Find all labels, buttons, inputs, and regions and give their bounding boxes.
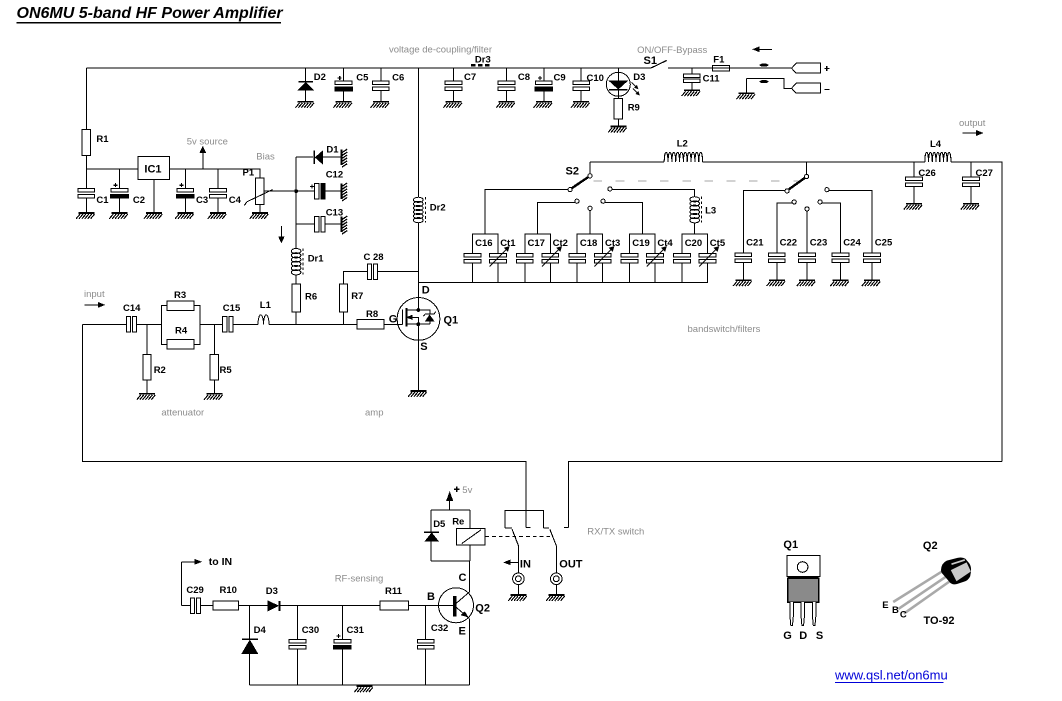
svg-text:C23: C23 [810, 237, 827, 248]
wire R2 to ground [146, 380, 148, 393]
svg-text:C19: C19 [632, 238, 649, 249]
svg-text:C17: C17 [528, 238, 545, 249]
wire C26 stem [913, 162, 915, 203]
svg-text:R4: R4 [175, 326, 188, 337]
wire C13 leads [296, 223, 340, 225]
wire C9 stem [543, 68, 545, 101]
diode D5 [424, 532, 439, 541]
ground below R2 [137, 393, 156, 400]
potentiometer P1 [244, 178, 272, 206]
svg-text:attenuator: attenuator [161, 408, 204, 419]
capacitor C31 (polar) [334, 634, 352, 649]
capacitor C22 [768, 253, 785, 263]
svg-text:L2: L2 [677, 139, 688, 150]
fuse F1 [712, 65, 729, 71]
svg-text:C26: C26 [918, 168, 935, 179]
chassis bar at C12 [340, 183, 347, 201]
svg-text:input: input [84, 289, 105, 300]
wire C18 to bottom bus [576, 263, 578, 282]
svg-text:5v: 5v [462, 485, 472, 496]
ground below P1 [250, 212, 268, 219]
capacitor C26 [906, 177, 923, 187]
svg-text:D2: D2 [314, 72, 326, 83]
wire C17/Ct2 tank bracket [525, 234, 551, 253]
svg-text:C4: C4 [229, 195, 242, 206]
node +5v arrow [447, 492, 453, 510]
switch S1 [651, 60, 667, 68]
capacitor C11 [683, 74, 700, 83]
svg-text:C1: C1 [96, 195, 109, 206]
svg-text:TO-92: TO-92 [924, 615, 955, 627]
svg-text:L1: L1 [260, 300, 272, 311]
svg-text:R7: R7 [351, 291, 363, 302]
connector IN jack [513, 573, 525, 585]
ground below C27 [961, 203, 980, 210]
wire relay bottom bar [431, 560, 470, 562]
svg-text:C16: C16 [475, 238, 492, 249]
capacitor C21 [735, 253, 752, 263]
wire C31 drop [341, 606, 343, 685]
svg-text:R6: R6 [305, 292, 317, 303]
wire S2b contact3 to C23 [806, 211, 808, 253]
chassis bar at C13 [340, 216, 347, 234]
label link www.qsl.net/on6mu [834, 668, 948, 683]
svg-text:Q1: Q1 [783, 539, 798, 551]
wire D4 to bottom bus [249, 654, 251, 685]
wire - lead [747, 78, 792, 92]
svg-text:G: G [389, 314, 398, 326]
wire input line [83, 323, 127, 325]
ground below C10 [571, 101, 590, 108]
wire D4 drop [249, 606, 251, 639]
Q1 TO-220 package [787, 556, 820, 626]
wire C11 stem [691, 68, 693, 89]
ground below C4 [208, 212, 227, 219]
ground below C5 [333, 101, 352, 108]
capacitor Ct1 (trimmer) [490, 253, 507, 263]
svg-text:C21: C21 [746, 237, 764, 248]
wire drain to filter bottom bus [418, 281, 708, 283]
wire R6 to input line [295, 312, 297, 324]
wire C19/Ct4 tank bracket [630, 234, 656, 253]
svg-text:C12: C12 [326, 169, 343, 180]
wire C16/Ct1 tank bracket [472, 234, 498, 253]
inductor Dr1 [291, 248, 303, 275]
svg-text:R9: R9 [628, 103, 640, 114]
svg-text:C3: C3 [196, 195, 208, 206]
wire S2a contact5 to L3 [612, 190, 695, 197]
node bias-direction arrow [279, 226, 285, 243]
inductor L3 [690, 197, 702, 223]
svg-text:amp: amp [365, 408, 383, 419]
ground below IN jack [508, 594, 527, 601]
svg-text:Ct1: Ct1 [500, 238, 516, 249]
svg-text:C7: C7 [464, 72, 476, 83]
svg-text:D1: D1 [326, 145, 339, 156]
wire C3 stem [184, 169, 186, 212]
capacitor C7 [445, 81, 462, 91]
relay contact lever IN [512, 529, 518, 573]
svg-text:IC1: IC1 [144, 164, 161, 176]
diode D4 [242, 639, 258, 654]
svg-text:to IN: to IN [209, 556, 232, 568]
wire top supply bus (right of S1 to + terminal) [668, 67, 791, 69]
ground below C6 [371, 101, 390, 108]
svg-text:D3: D3 [266, 586, 278, 597]
relay contact common bar [505, 510, 549, 528]
svg-text:C6: C6 [392, 73, 404, 84]
inductor Dr2 [414, 197, 426, 223]
capacitor C29 [190, 598, 200, 614]
wire Ct3 to bottom bus [602, 263, 604, 282]
ground at - lead [737, 92, 756, 99]
capacitor Ct3 (trimmer) [594, 253, 611, 263]
wire Q1 source to ground [417, 324, 419, 390]
attenuator network R3/R4 frame [161, 306, 200, 345]
ground below C21 [733, 279, 752, 286]
capacitor Ct5 (trimmer) [699, 253, 716, 263]
svg-text:C2: C2 [133, 195, 145, 206]
resistor R7 [339, 284, 347, 312]
svg-text:R1: R1 [96, 134, 109, 145]
transistor Q2 [439, 588, 474, 623]
wire gate line [269, 323, 402, 325]
svg-text:www.qsl.net/on6mu: www.qsl.net/on6mu [834, 668, 948, 683]
svg-text:R10: R10 [220, 585, 237, 596]
capacitor C24 [832, 253, 849, 263]
wire C18/Ct3 tank bracket [577, 234, 603, 253]
capacitor C17 [516, 253, 533, 263]
capacitor C19 [621, 253, 638, 263]
switch S2 section B [785, 162, 829, 211]
ferrite bead on - lead [760, 80, 769, 83]
svg-text:D: D [799, 630, 807, 642]
wire P1 to ground [259, 205, 261, 212]
svg-text:B: B [892, 605, 899, 616]
wire D5 branch [430, 510, 432, 561]
wire relay to Q2 collector [469, 561, 471, 592]
svg-text:E: E [882, 600, 888, 611]
capacitor C18 [569, 253, 586, 263]
ground below R9 [608, 126, 627, 133]
wire S2a contact3 to C18 tank [589, 210, 591, 234]
svg-text:C25: C25 [875, 237, 893, 248]
svg-text:C10: C10 [587, 73, 604, 84]
node input arrow [84, 302, 104, 307]
svg-text:C9: C9 [554, 73, 566, 84]
wire C17 to bottom bus [524, 263, 526, 282]
capacitor C1 [78, 188, 95, 198]
wire filter top line (middle segment) [703, 161, 925, 163]
wire R5 to ground [213, 380, 215, 393]
capacitor C6 [372, 81, 389, 91]
svg-text:D5: D5 [433, 519, 446, 530]
wire S2b contact5 to C25 [829, 190, 872, 253]
wire R10 to D3 [239, 605, 268, 607]
node output arrow [963, 130, 983, 135]
svg-text:Q2: Q2 [475, 603, 490, 615]
svg-text:Ct5: Ct5 [710, 238, 726, 249]
svg-text:S: S [420, 341, 427, 353]
svg-text:RF-sensing: RF-sensing [335, 573, 384, 584]
resistor R5 [210, 354, 218, 380]
ground below C24 [830, 279, 849, 286]
wire R5 drop [213, 324, 215, 354]
capacitor C20 [674, 253, 691, 263]
ground below D2 [296, 101, 315, 108]
wire left drop from bus to R1 [85, 68, 87, 130]
svg-text:Dr3: Dr3 [475, 55, 491, 66]
ground below IC1 [144, 212, 163, 219]
capacitor Ct4 (trimmer) [647, 253, 664, 263]
wire Ct4 to bottom bus [654, 263, 656, 282]
resistor R8 [357, 320, 384, 330]
svg-text:D: D [422, 285, 430, 297]
node 5v source arrow [200, 146, 206, 169]
wire Dr2 to Q1 drain [417, 222, 419, 310]
wire Ct2 to bottom bus [549, 263, 551, 282]
wire C15 to L1 [233, 323, 258, 325]
wire to C29 [182, 605, 191, 607]
svg-text:output: output [959, 118, 986, 129]
wire bias chain vertical [295, 157, 297, 248]
switch S2 section A [568, 162, 612, 210]
svg-text:B: B [427, 591, 435, 603]
inductor L2 [664, 152, 702, 162]
capacitor C8 [498, 81, 515, 91]
wire C21 to ground [742, 263, 744, 280]
svg-text:C: C [459, 572, 467, 584]
capacitor C14 [126, 317, 136, 333]
ground below C23 [797, 279, 816, 286]
svg-text:C5: C5 [356, 73, 369, 84]
wire C1 stem [85, 169, 87, 212]
wire R1 to bias rail [85, 156, 87, 169]
svg-text:Ct4: Ct4 [657, 238, 673, 249]
svg-text:G: G [783, 630, 792, 642]
svg-text:Dr2: Dr2 [430, 203, 446, 214]
wire TX contact foot [526, 527, 531, 529]
label title ON6MU 5-band HF Power Amplifier [17, 5, 284, 23]
resistor R4 [167, 340, 194, 350]
svg-text:OUT: OUT [559, 558, 583, 570]
svg-text:voltage de-coupling/filter: voltage de-coupling/filter [389, 44, 492, 55]
wire S2a contact2 to C17 tank [538, 202, 575, 234]
wire C2 stem [119, 169, 121, 212]
svg-text:C20: C20 [685, 238, 702, 249]
svg-text:R11: R11 [385, 586, 403, 597]
wire Ct5 to bottom bus [707, 263, 709, 282]
capacitor C13 [315, 216, 325, 232]
wire R7 to C28 [344, 272, 368, 284]
wire Q2 emitter to bottom bus [469, 619, 471, 685]
resistor R1 [82, 130, 90, 156]
wire R2 drop [146, 324, 148, 354]
transistor Q1 (MOSFET) [397, 298, 440, 341]
wire C12 leads [296, 190, 340, 192]
wire C16 to bottom bus [471, 263, 473, 282]
wire Dr1 to R6 [295, 275, 297, 285]
ground below C25 [862, 279, 881, 286]
Q2 TO-92 package [893, 558, 971, 614]
wire relay top bar [431, 509, 470, 511]
wire attenuator output [200, 323, 223, 325]
wire D2 stem [305, 68, 307, 101]
ground below C8 [496, 101, 515, 108]
svg-text:E: E [459, 626, 466, 638]
diode D1 [314, 151, 340, 165]
wire drain line from bus [417, 68, 419, 197]
svg-text:L4: L4 [930, 139, 942, 150]
capacitor C32 [417, 639, 434, 649]
svg-text:L3: L3 [705, 205, 716, 216]
capacitor C15 [223, 317, 233, 333]
chassis bar at D1 [340, 149, 347, 167]
ground at bottom bus [354, 685, 373, 692]
svg-text:C27: C27 [976, 168, 993, 179]
node battery arrow [753, 47, 772, 52]
wire 5v rail [86, 169, 260, 178]
capacitor C30 [289, 639, 306, 649]
wire filter top line (left segment) [590, 161, 664, 163]
svg-text:Ct2: Ct2 [553, 238, 568, 249]
svg-text:D4: D4 [254, 625, 267, 636]
svg-text:C18: C18 [580, 238, 597, 249]
ground below Q1 source [408, 390, 427, 397]
capacitor C9 (polar) [535, 76, 553, 91]
svg-text:Dr1: Dr1 [308, 253, 325, 264]
capacitor C27 [963, 177, 980, 187]
wire C8 stem [506, 68, 508, 101]
wire P1 wiper output [265, 190, 297, 192]
wire D1 anode lead [296, 156, 313, 158]
wire R11 to Q2 base [408, 605, 438, 607]
wire C23 to ground [806, 263, 808, 280]
svg-text:Q1: Q1 [444, 315, 459, 327]
wire C32 drop [425, 606, 427, 685]
wire C20 to bottom bus [681, 263, 683, 282]
svg-text:D3: D3 [633, 72, 645, 83]
wire S2b contact4 to C24 [822, 203, 840, 253]
svg-text:R3: R3 [174, 290, 186, 301]
capacitor Ct2 (trimmer) [542, 253, 559, 263]
wire S2b contact1 to C21 [743, 190, 785, 253]
svg-text:C 28: C 28 [364, 252, 384, 263]
ground below C1 [76, 212, 95, 219]
wire S2b contact2 to C22 [777, 203, 792, 253]
wire C22 to ground [776, 263, 778, 280]
inductor L4 [925, 152, 951, 162]
wire C4 stem [217, 169, 219, 212]
ground below C9 [534, 101, 553, 108]
diode D3 (RF sense) [268, 601, 279, 611]
svg-text:R8: R8 [366, 309, 378, 320]
ground below C11 [682, 89, 701, 96]
wire D3 to R11 [280, 605, 380, 607]
node junction wiper/C12 [294, 189, 298, 193]
resistor R11 [380, 601, 408, 610]
linkage dashed line S2 [594, 180, 804, 182]
connector + terminal [792, 63, 830, 73]
svg-text:C29: C29 [186, 585, 203, 596]
wire C24 to ground [840, 263, 842, 280]
capacitor C12 (polar) [310, 183, 325, 199]
wire IC1 ground pin [153, 179, 155, 212]
ground below R5 [204, 393, 223, 400]
wire C5 stem [343, 68, 345, 101]
wire input line to relay (left drop) [83, 324, 526, 527]
svg-text:Ct3: Ct3 [605, 238, 620, 249]
relay coil Re [456, 529, 485, 545]
node to-IN arrow [182, 559, 202, 605]
wire C29 to R10 [201, 605, 213, 607]
svg-text:C11: C11 [703, 73, 721, 84]
LED D3 [606, 72, 639, 98]
svg-text:C32: C32 [431, 623, 448, 634]
svg-text:C14: C14 [123, 303, 141, 314]
svg-text:Q2: Q2 [923, 540, 938, 552]
ground below C7 [443, 101, 462, 108]
svg-text:RX/TX switch: RX/TX switch [587, 526, 644, 537]
wire OUT jack to ground [555, 585, 557, 594]
node IN arrow [504, 560, 519, 565]
svg-text:C: C [900, 609, 907, 620]
wire C7 stem [453, 68, 455, 101]
capacitor C10 [573, 81, 590, 91]
wire IN jack to ground [517, 585, 519, 594]
wire bottom bus [250, 684, 470, 686]
ground below C26 [904, 203, 923, 210]
svg-text:ON6MU 5-band HF Power Amplifie: ON6MU 5-band HF Power Amplifier [17, 5, 284, 22]
wire C28 to drain [378, 271, 419, 273]
svg-text:C30: C30 [302, 625, 319, 636]
wire C19 to bottom bus [629, 263, 631, 282]
resistor R3 [167, 301, 194, 311]
wire relay coil lead [469, 510, 471, 561]
wire C30 drop [297, 606, 299, 685]
capacitor C3 (polar) [177, 183, 195, 198]
svg-text:F1: F1 [713, 55, 725, 66]
wire L3 to C20 tank [694, 223, 696, 235]
wire R9 to ground [617, 119, 619, 126]
wire C20/Ct5 tank bracket [682, 234, 708, 253]
wire C14 to attenuator [137, 323, 162, 325]
capacitor C28 [367, 264, 377, 280]
svg-text:P1: P1 [243, 168, 255, 179]
wire C10 stem [580, 68, 582, 101]
svg-text:C22: C22 [780, 237, 797, 248]
linkage dashed relay to contacts [485, 535, 551, 537]
wire C27 stem [970, 162, 972, 203]
svg-text:C8: C8 [518, 72, 530, 83]
svg-text:C15: C15 [223, 303, 241, 314]
svg-text:S2: S2 [566, 166, 579, 178]
resistor R6 [292, 284, 300, 312]
resistor R2 [143, 354, 151, 380]
capacitor C25 [864, 253, 881, 263]
wire Ct1 to bottom bus [497, 263, 499, 282]
svg-text:S: S [816, 630, 823, 642]
wire S2a contact4 to C19 tank [605, 202, 642, 234]
wire S2a contact1 to C16 tank [485, 190, 568, 235]
svg-text:5v source: 5v source [187, 137, 228, 148]
IC regulator IC1 [138, 157, 170, 180]
capacitor C16 [464, 253, 481, 263]
ground below C2 [109, 212, 128, 219]
diode D2 [298, 82, 313, 90]
ferrite bead on + lead [760, 64, 769, 67]
label +5v supply [454, 485, 473, 496]
